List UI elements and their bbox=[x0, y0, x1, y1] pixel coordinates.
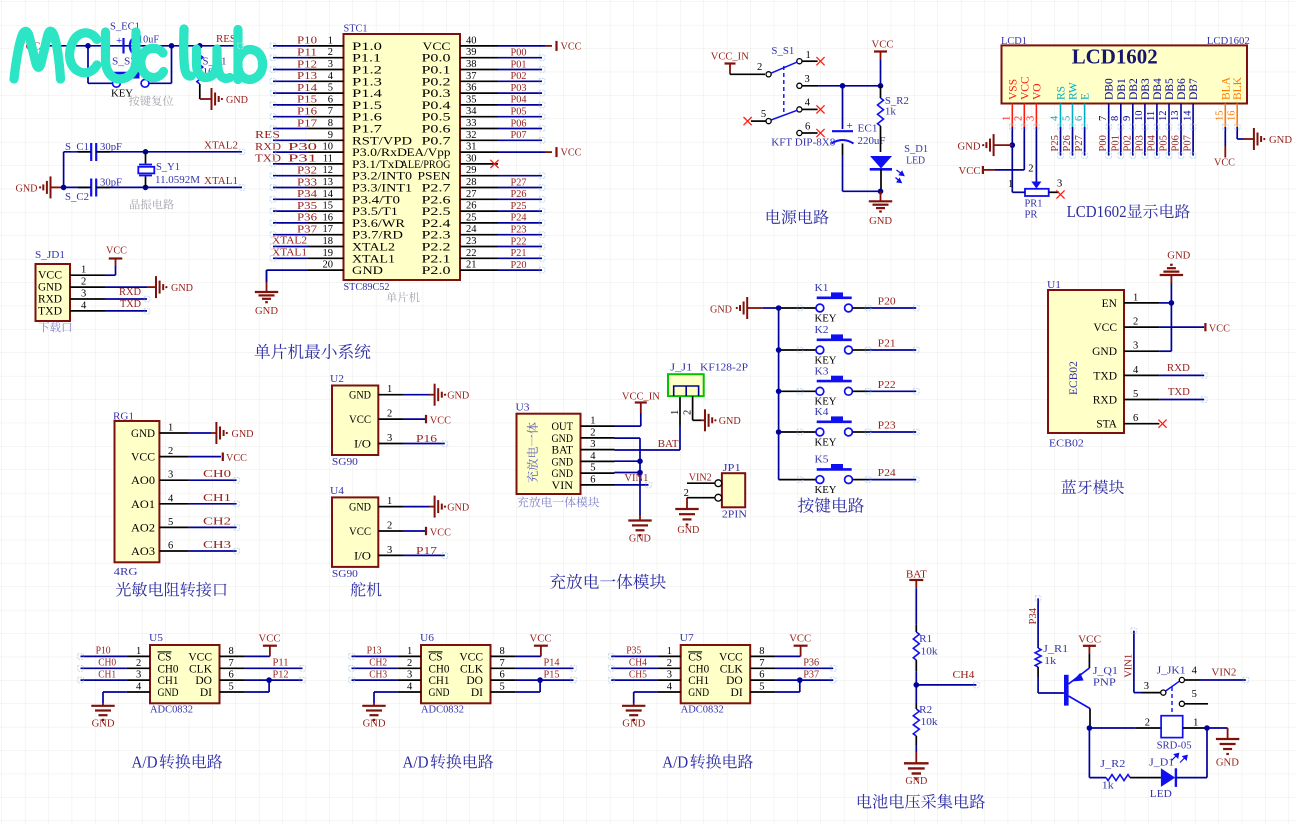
svg-text:VCC: VCC bbox=[349, 526, 371, 538]
title 电池电压采集电路 bbox=[858, 794, 985, 809]
svg-text:P3.5/T1: P3.5/T1 bbox=[352, 206, 398, 218]
svg-text:KFT DIP-8X8: KFT DIP-8X8 bbox=[771, 137, 835, 149]
svg-text:RST/VPD: RST/VPD bbox=[352, 135, 412, 147]
svg-text:GND: GND bbox=[171, 282, 193, 294]
junction key K3 bbox=[776, 389, 782, 395]
svg-text:P00: P00 bbox=[1098, 135, 1109, 151]
svg-text:DI: DI bbox=[731, 687, 743, 699]
svg-text:P12: P12 bbox=[273, 668, 289, 680]
svg-text:DB4: DB4 bbox=[1152, 78, 1164, 100]
svg-text:11: 11 bbox=[323, 153, 333, 164]
wire U6 pin4 to ground bbox=[374, 692, 398, 704]
svg-text:KF128-2P: KF128-2P bbox=[700, 362, 748, 374]
ground (reset) bbox=[200, 88, 248, 110]
ground (U2) bbox=[403, 384, 469, 406]
resistor J_R1 1k bbox=[1035, 643, 1068, 693]
svg-text:5: 5 bbox=[1192, 689, 1197, 700]
mcu pin 11 wire bbox=[273, 153, 344, 164]
svg-text:P17: P17 bbox=[416, 545, 438, 557]
svg-text:VCC: VCC bbox=[959, 165, 981, 177]
lcd pin3 wire to potentiometer bbox=[1028, 127, 1036, 182]
capacitor EC1 220uF bbox=[832, 86, 886, 192]
svg-text:ADC0832: ADC0832 bbox=[421, 704, 464, 716]
wire RES stub bbox=[200, 45, 241, 47]
svg-text:P13: P13 bbox=[297, 70, 318, 82]
svg-text:37: 37 bbox=[466, 71, 477, 82]
svg-text:DO: DO bbox=[466, 675, 483, 687]
svg-text:CH1: CH1 bbox=[98, 668, 116, 680]
title 充放电一体模块 bbox=[550, 574, 666, 590]
svg-text:40: 40 bbox=[466, 35, 477, 46]
svg-text:GND: GND bbox=[429, 687, 450, 699]
svg-text:DB2: DB2 bbox=[1128, 78, 1140, 100]
connector J_J1 KF128-2P bbox=[668, 362, 748, 416]
svg-text:5: 5 bbox=[328, 83, 333, 94]
svg-text:33: 33 bbox=[466, 118, 477, 129]
svg-text:2: 2 bbox=[1133, 317, 1138, 328]
svg-text:VCC: VCC bbox=[430, 527, 451, 539]
svg-text:P3.0/RxD: P3.0/RxD bbox=[352, 147, 407, 159]
no-connect X pin6 bbox=[816, 129, 824, 137]
svg-text:PSEN: PSEN bbox=[418, 171, 452, 183]
svg-text:17: 17 bbox=[323, 224, 334, 235]
wire RXD bbox=[105, 286, 147, 299]
svg-text:GND: GND bbox=[226, 94, 248, 106]
ground (keys) bbox=[710, 297, 779, 319]
svg-text:VCC: VCC bbox=[530, 633, 552, 645]
wire CH0 (U5 pin2) bbox=[81, 657, 127, 669]
lcd pin1 wire to ground bbox=[1011, 127, 1013, 188]
svg-text:U3: U3 bbox=[516, 402, 531, 414]
lcd pin numbers bbox=[1002, 110, 1238, 121]
power port VCC (U4) bbox=[403, 527, 451, 539]
svg-text:3: 3 bbox=[1133, 341, 1138, 352]
title 蓝牙模块 bbox=[1061, 480, 1124, 495]
svg-text:4: 4 bbox=[328, 71, 334, 82]
svg-text:P20: P20 bbox=[511, 259, 527, 271]
resistor S_R1 10k bbox=[197, 46, 227, 99]
wire P11 (U5 pin7) bbox=[245, 657, 303, 669]
svg-text:LCD1602: LCD1602 bbox=[1072, 45, 1158, 69]
svg-text:6: 6 bbox=[759, 670, 764, 681]
svg-text:15: 15 bbox=[323, 201, 334, 212]
capacitor S_EC1 10uF bbox=[110, 21, 159, 54]
svg-text:27: 27 bbox=[466, 189, 477, 200]
svg-text:+: + bbox=[116, 35, 122, 47]
mcu pin 3 wire bbox=[273, 58, 344, 70]
svg-text:P01: P01 bbox=[511, 58, 527, 70]
junction crystal bbox=[61, 185, 67, 191]
svg-text:STC1: STC1 bbox=[344, 23, 368, 35]
svg-text:P21: P21 bbox=[878, 338, 896, 350]
wire relay pin1 bbox=[1183, 718, 1207, 729]
net label RES bbox=[216, 33, 236, 45]
svg-text:P2.5: P2.5 bbox=[422, 206, 451, 218]
ground (lcd backlight) bbox=[1244, 128, 1293, 150]
power port VCC_IN (U3) bbox=[615, 391, 660, 427]
svg-text:6: 6 bbox=[1074, 116, 1085, 121]
mcu pin 31 wire bbox=[460, 142, 582, 159]
svg-text:4: 4 bbox=[81, 300, 87, 311]
svg-text:6: 6 bbox=[229, 670, 234, 681]
svg-text:EA/Vpp: EA/Vpp bbox=[407, 147, 451, 159]
svg-text:STC89C52: STC89C52 bbox=[344, 281, 390, 293]
svg-text:AO2: AO2 bbox=[131, 522, 155, 534]
title 按键电路 bbox=[798, 497, 864, 512]
svg-text:RXD: RXD bbox=[1167, 362, 1190, 374]
wire CH2 bbox=[189, 515, 237, 527]
svg-text:VCC: VCC bbox=[131, 452, 155, 464]
power port VCC (U1) bbox=[1159, 323, 1230, 335]
ground (battery divider) bbox=[904, 752, 929, 787]
svg-text:5: 5 bbox=[1133, 389, 1138, 400]
ground (U3) bbox=[628, 516, 651, 545]
svg-text:P05: P05 bbox=[511, 106, 527, 118]
net label XTAL2 bbox=[204, 140, 238, 152]
svg-text:5: 5 bbox=[590, 463, 595, 474]
no-connect X pin4 bbox=[816, 105, 824, 113]
svg-text:4: 4 bbox=[1133, 365, 1139, 376]
svg-text:CLK: CLK bbox=[189, 663, 213, 675]
svg-text:29: 29 bbox=[466, 165, 477, 176]
key K3 bbox=[779, 365, 868, 407]
svg-text:6: 6 bbox=[590, 474, 595, 485]
mcu pin 24 wire bbox=[460, 224, 542, 236]
svg-text:P3.1/TxD: P3.1/TxD bbox=[352, 159, 404, 171]
svg-text:5: 5 bbox=[168, 517, 173, 528]
svg-text:6: 6 bbox=[805, 122, 810, 133]
wire VIN1 (U3 pin6) bbox=[615, 472, 649, 485]
ground (power circuit) bbox=[869, 191, 892, 227]
ground (U6) bbox=[362, 704, 385, 730]
svg-text:DB3: DB3 bbox=[1140, 78, 1152, 100]
svg-text:1k: 1k bbox=[885, 106, 897, 118]
svg-text:GND: GND bbox=[677, 524, 699, 536]
ground (J_J1) bbox=[701, 409, 741, 431]
svg-text:11: 11 bbox=[1146, 111, 1157, 121]
title A/D转换电路 (U5) bbox=[132, 752, 223, 771]
svg-text:P0.0: P0.0 bbox=[422, 53, 451, 65]
mcu pin 21 wire bbox=[460, 259, 542, 271]
svg-text:ECB02: ECB02 bbox=[1049, 438, 1084, 450]
svg-text:J_R1: J_R1 bbox=[1043, 643, 1068, 655]
mcu pin 38 wire bbox=[460, 58, 542, 70]
svg-text:S_Y1: S_Y1 bbox=[156, 161, 180, 173]
svg-text:XTAL2: XTAL2 bbox=[352, 242, 395, 254]
wire LED branch bbox=[1089, 728, 1106, 778]
svg-text:CH2: CH2 bbox=[203, 515, 231, 527]
svg-text:RXD: RXD bbox=[38, 294, 62, 306]
svg-text:P3.3/INT1: P3.3/INT1 bbox=[352, 183, 412, 195]
resistor S_R2 1k bbox=[878, 86, 909, 152]
svg-text:CH1: CH1 bbox=[158, 675, 179, 687]
svg-text:VCC: VCC bbox=[1214, 157, 1235, 169]
svg-text:P1.2: P1.2 bbox=[352, 65, 382, 77]
adc U7 ADC0832 bbox=[658, 632, 776, 716]
svg-text:P1.0: P1.0 bbox=[352, 41, 382, 53]
svg-text:VCC: VCC bbox=[226, 452, 247, 464]
junction DO/DI (U6) bbox=[537, 677, 543, 683]
svg-text:39: 39 bbox=[466, 47, 477, 58]
svg-text:P12: P12 bbox=[297, 58, 317, 70]
svg-text:STA: STA bbox=[1096, 419, 1117, 431]
hotspot markers bbox=[78, 43, 1249, 688]
svg-text:P34: P34 bbox=[1028, 607, 1039, 624]
svg-text:GND: GND bbox=[1167, 250, 1190, 262]
svg-text:25: 25 bbox=[466, 212, 477, 223]
svg-text:3: 3 bbox=[407, 670, 412, 681]
svg-text:3: 3 bbox=[168, 470, 173, 481]
svg-text:9: 9 bbox=[1122, 116, 1133, 121]
adc U6 ADC0832 bbox=[398, 632, 516, 716]
ground (mcu) bbox=[255, 270, 278, 317]
svg-text:28: 28 bbox=[466, 177, 477, 188]
power port VCC_IN (power circuit) bbox=[711, 51, 749, 75]
wire BAT bbox=[615, 396, 681, 450]
svg-text:P2.0: P2.0 bbox=[422, 265, 451, 277]
svg-text:VO: VO bbox=[1031, 83, 1043, 100]
svg-text:2: 2 bbox=[667, 658, 672, 669]
ground (relay) bbox=[1216, 728, 1239, 769]
wire to ground (relay) bbox=[1207, 728, 1228, 730]
wire CH3 bbox=[189, 539, 237, 551]
svg-text:XTAL2: XTAL2 bbox=[204, 140, 238, 152]
net label RES (mcu pin9) bbox=[255, 129, 280, 141]
svg-text:35: 35 bbox=[466, 94, 477, 105]
svg-text:J_Q1: J_Q1 bbox=[1093, 665, 1118, 677]
mcu pin 17 wire bbox=[273, 224, 344, 236]
svg-text:SG90: SG90 bbox=[332, 568, 359, 580]
svg-text:OUT: OUT bbox=[552, 421, 574, 433]
svg-text:P27: P27 bbox=[511, 176, 527, 188]
svg-text:P0.3: P0.3 bbox=[422, 88, 451, 100]
svg-text:CH3: CH3 bbox=[203, 539, 232, 551]
svg-text:P00: P00 bbox=[511, 47, 527, 59]
mcu pin 14 wire bbox=[273, 188, 344, 200]
mcu pin 30 wire bbox=[460, 153, 499, 168]
switch S_S1 KFT DIP-8X8 bbox=[730, 45, 818, 136]
svg-text:3: 3 bbox=[328, 59, 333, 70]
svg-text:1k: 1k bbox=[1102, 780, 1115, 792]
wire U7 pin4 to ground bbox=[634, 692, 658, 704]
svg-text:P04: P04 bbox=[511, 94, 527, 106]
svg-text:P14: P14 bbox=[544, 657, 560, 669]
svg-text:AO0: AO0 bbox=[131, 475, 155, 487]
svg-text:7: 7 bbox=[328, 106, 333, 117]
svg-text:P10: P10 bbox=[96, 645, 111, 657]
junction lcd gnd bbox=[1010, 142, 1016, 148]
svg-text:P3.6/WR: P3.6/WR bbox=[352, 218, 405, 230]
svg-text:P11: P11 bbox=[297, 47, 317, 59]
svg-text:VCC: VCC bbox=[430, 415, 451, 427]
lcd pin16 wire to ground bbox=[1237, 127, 1243, 139]
svg-text:P06: P06 bbox=[1171, 135, 1182, 151]
svg-text:VCC: VCC bbox=[1093, 322, 1117, 334]
svg-text:E: E bbox=[1080, 93, 1092, 100]
svg-text:8: 8 bbox=[1110, 116, 1121, 121]
svg-text:1: 1 bbox=[387, 496, 392, 507]
svg-text:XTAL1: XTAL1 bbox=[204, 175, 238, 187]
svg-text:8: 8 bbox=[328, 118, 333, 129]
svg-text:P14: P14 bbox=[297, 82, 318, 94]
junction B bbox=[169, 43, 175, 49]
svg-text:18: 18 bbox=[323, 236, 334, 247]
svg-text:1: 1 bbox=[670, 410, 681, 415]
svg-text:VIN1: VIN1 bbox=[1124, 654, 1135, 678]
label 下载口 bbox=[38, 322, 71, 333]
lcd rotated net labels bbox=[1050, 134, 1194, 151]
svg-text:R1: R1 bbox=[919, 633, 932, 645]
svg-text:P36: P36 bbox=[803, 657, 819, 669]
svg-text:GND: GND bbox=[552, 433, 574, 445]
svg-text:P23: P23 bbox=[511, 224, 527, 236]
wire RXD (U1) bbox=[1159, 362, 1204, 375]
svg-text:U7: U7 bbox=[680, 632, 695, 644]
svg-text:P22: P22 bbox=[878, 379, 896, 391]
mcu pin 2 wire bbox=[273, 47, 344, 59]
svg-text:4: 4 bbox=[136, 682, 142, 693]
svg-text:K1: K1 bbox=[815, 282, 829, 294]
no-connect X pin1 bbox=[816, 57, 824, 65]
svg-text:P25: P25 bbox=[1050, 135, 1061, 151]
svg-text:VCC: VCC bbox=[1078, 634, 1101, 646]
svg-text:5: 5 bbox=[759, 682, 764, 693]
title 电源电路 bbox=[767, 209, 829, 224]
svg-text:1: 1 bbox=[1133, 292, 1138, 303]
svg-text:AO3: AO3 bbox=[131, 546, 155, 558]
svg-text:P03: P03 bbox=[1134, 135, 1145, 151]
svg-text:TXD: TXD bbox=[38, 305, 62, 317]
svg-text:PR: PR bbox=[1025, 209, 1039, 221]
svg-text:U4: U4 bbox=[330, 485, 345, 497]
wire U3 pin2 gnd rail bbox=[615, 438, 641, 515]
svg-text:1: 1 bbox=[407, 646, 412, 657]
svg-text:DB6: DB6 bbox=[1176, 78, 1188, 100]
svg-text:P1.4: P1.4 bbox=[352, 88, 382, 100]
junction C bbox=[197, 43, 203, 49]
svg-text:U6: U6 bbox=[420, 632, 435, 644]
net label XTAL1 bbox=[204, 175, 238, 187]
wire JP1 pin2 to ground bbox=[687, 498, 715, 499]
mcu pin 39 wire bbox=[460, 47, 542, 59]
wire VIN2 (JP1 pin1) bbox=[684, 472, 715, 500]
svg-text:P06: P06 bbox=[511, 117, 527, 129]
wire S_JD1 pin2 to GND bbox=[105, 286, 147, 288]
svg-text:CH1: CH1 bbox=[203, 492, 231, 504]
svg-text:4: 4 bbox=[667, 682, 673, 693]
svg-text:TXD: TXD bbox=[120, 298, 141, 310]
power port BAT bbox=[906, 569, 927, 589]
svg-text:30: 30 bbox=[466, 153, 477, 164]
svg-text:1: 1 bbox=[806, 50, 811, 61]
svg-text:VCC: VCC bbox=[459, 651, 483, 663]
svg-text:31: 31 bbox=[466, 142, 477, 153]
key K2 bbox=[779, 324, 868, 366]
wire U3 pin4 bbox=[615, 460, 641, 462]
wire CH1 (U5 pin3) bbox=[81, 668, 127, 680]
svg-text:S_JD1: S_JD1 bbox=[35, 249, 65, 261]
svg-text:ALE/PROG: ALE/PROG bbox=[401, 159, 451, 171]
connector S_JD1 (download port) bbox=[35, 249, 105, 321]
mcu pin 26 wire bbox=[460, 200, 542, 212]
svg-text:6: 6 bbox=[328, 94, 333, 105]
svg-text:CH4: CH4 bbox=[953, 669, 976, 681]
mcu pin 15 wire bbox=[273, 200, 344, 212]
svg-text:TXD: TXD bbox=[1093, 370, 1117, 382]
title 单片机最小系统 bbox=[255, 344, 371, 359]
svg-text:3: 3 bbox=[590, 439, 595, 450]
mcu U-STC1 body bbox=[344, 23, 461, 281]
svg-text:2: 2 bbox=[407, 658, 412, 669]
svg-text:9: 9 bbox=[328, 130, 333, 141]
svg-text:SG90: SG90 bbox=[332, 456, 359, 468]
svg-text:DB5: DB5 bbox=[1164, 78, 1176, 100]
wire P16 bbox=[403, 433, 445, 445]
logo MCUclub bbox=[14, 29, 263, 80]
svg-text:P2.7: P2.7 bbox=[422, 183, 451, 195]
wire P24 bbox=[868, 467, 917, 479]
svg-text:P1.7: P1.7 bbox=[352, 124, 382, 136]
wire VCC to reset network bbox=[44, 45, 200, 47]
svg-text:P2.4: P2.4 bbox=[422, 218, 451, 230]
svg-text:BLA: BLA bbox=[1220, 76, 1232, 100]
switch S_S2 (reset key) bbox=[88, 46, 172, 100]
svg-text:2: 2 bbox=[590, 427, 595, 438]
svg-text:XTAL1: XTAL1 bbox=[352, 253, 395, 265]
svg-text:P20: P20 bbox=[878, 296, 897, 308]
svg-text:26: 26 bbox=[466, 201, 477, 212]
svg-text:12: 12 bbox=[1158, 111, 1169, 122]
svg-text:ADC0832: ADC0832 bbox=[681, 704, 724, 716]
capacitor S_C2 30pF bbox=[65, 177, 122, 204]
svg-text:1: 1 bbox=[667, 646, 672, 657]
svg-text:GND: GND bbox=[255, 305, 278, 317]
svg-text:4: 4 bbox=[590, 451, 596, 462]
svg-text:P36: P36 bbox=[297, 212, 318, 224]
svg-text:P07: P07 bbox=[1183, 135, 1194, 151]
svg-text:2: 2 bbox=[168, 446, 173, 457]
svg-text:CH4: CH4 bbox=[629, 657, 647, 669]
svg-text:10uF: 10uF bbox=[138, 34, 159, 46]
svg-text:TXD: TXD bbox=[1168, 386, 1190, 398]
wire P15 (U6 pin6+5) bbox=[516, 668, 574, 692]
net labels TXD P31 (mcu pin11) bbox=[255, 153, 317, 165]
mcu pin 6 wire bbox=[273, 94, 344, 106]
no-connect X (U1 STA) bbox=[1158, 420, 1166, 428]
label KFT DIP-8X8 bbox=[771, 137, 835, 149]
svg-text:P26: P26 bbox=[511, 188, 527, 200]
svg-text:U5: U5 bbox=[149, 632, 164, 644]
key K4 bbox=[779, 406, 868, 448]
svg-text:3: 3 bbox=[1057, 179, 1062, 190]
svg-text:4: 4 bbox=[1192, 666, 1198, 677]
svg-text:RXD: RXD bbox=[1093, 395, 1117, 407]
svg-text:J_JK1: J_JK1 bbox=[1157, 665, 1186, 677]
svg-text:I/O: I/O bbox=[354, 550, 371, 562]
svg-text:P1.6: P1.6 bbox=[352, 112, 382, 124]
svg-text:11.0592M: 11.0592M bbox=[155, 174, 200, 186]
svg-text:S_D1: S_D1 bbox=[904, 143, 928, 155]
svg-text:P0.6: P0.6 bbox=[422, 124, 451, 136]
svg-text:2: 2 bbox=[136, 658, 141, 669]
svg-text:BAT: BAT bbox=[658, 438, 679, 450]
junction relay pin1 bbox=[1204, 725, 1210, 731]
svg-text:1: 1 bbox=[328, 35, 333, 46]
svg-text:P2.6: P2.6 bbox=[422, 194, 451, 206]
svg-text:34: 34 bbox=[466, 106, 477, 117]
svg-text:CLK: CLK bbox=[720, 663, 744, 675]
junction relay coil bbox=[1087, 725, 1093, 731]
